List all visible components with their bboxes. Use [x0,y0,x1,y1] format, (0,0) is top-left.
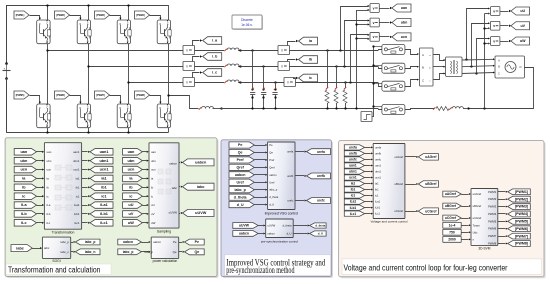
IGBT/Diode Q1 (upper leg 1) [37,20,51,44]
breaker B2 [382,63,405,73]
svg-text:uU: uU [151,203,155,207]
svg-text:Voltage and current control: Voltage and current control [371,219,408,223]
goto tag uan [392,4,411,12]
goto tag ubn1 [82,157,113,164]
svg-text:ubn: ubn [127,159,135,163]
goto tag d_theta [293,223,326,228]
from tag [PWM5] [14,91,29,99]
svg-text:uUVW: uUVW [195,211,207,215]
voltage measurement block uV [491,21,500,30]
svg-text:ic1: ic1 [375,194,379,198]
capacitor Cfa branch [250,49,255,109]
goto tag i_a [203,37,222,45]
wire: phase C from leg 3 [127,81,183,83]
panel 2 title: Improved VSG control strategy and pre-synchronization method [225,255,331,276]
svg-text:iLa1: iLa1 [74,203,80,207]
svg-text:uabcn: uabcn [269,173,277,177]
current measurement block ib (grid side) [278,62,290,71]
svg-text:ucn1: ucn1 [375,176,381,180]
from tag iLa (Transformation input) [14,202,36,209]
wire: phase A from leg 1 [46,49,183,51]
svg-text:ubn1: ubn1 [375,169,381,173]
breaker B1 [382,44,405,54]
from tag ic1 (VCC input) [344,193,373,198]
svg-text:1e-4: 1e-4 [449,223,456,227]
wire: to goto tag uW [500,40,511,42]
breaker B4 (neutral) [382,105,405,115]
svg-text:ubn1: ubn1 [99,159,108,163]
wire: phase jogs into breakers [379,50,382,87]
wire: gate PWM5 to IGBT Q5 [30,96,42,104]
svg-text:uan: uan [128,150,135,154]
wire: gate PWM2 to IGBT Q2 [70,16,82,20]
svg-text:iLb1: iLb1 [350,206,357,210]
from tag [PWM3] [95,11,110,19]
subsystem block pre-synchronization control [261,219,298,243]
goto tag ucn1 [82,166,113,173]
svg-text:Pref: Pref [269,158,274,162]
svg-text:Udc: Udc [473,230,478,234]
resistor Rloadc branch [343,81,347,109]
svg-text:d_U: d_U [269,203,274,207]
from tag uan (Sampling input) [123,149,149,156]
goto tag ia [299,37,318,45]
svg-text:i: i [187,80,188,84]
goto tag urefa [295,149,331,155]
svg-text:Uref: Uref [237,180,245,184]
svg-text:[PWM2]: [PWM2] [56,13,65,17]
from tag uabcn (presync input) [233,231,266,237]
svg-text:uW: uW [128,221,134,225]
wire: Q5 emitter to bottom rail [46,128,48,134]
svg-text:uAGref: uAGref [445,192,457,196]
subsystem block Improved VSG control [265,142,299,216]
svg-text:urefb: urefb [349,152,357,156]
svg-text:ic1: ic1 [351,194,356,198]
svg-text:ucn1: ucn1 [349,176,357,180]
from tag iabc_p (VSG input) [229,187,267,193]
svg-text:iLc1: iLc1 [74,221,80,225]
svg-text:iLb: iLb [47,212,51,216]
goto tag uU [511,7,530,15]
three-phase programmable grid source [495,56,524,78]
svg-text:iabc_p: iabc_p [60,240,69,244]
from tag ia (Transformation input) [14,175,36,182]
svg-text:Qe: Qe [238,151,243,155]
svg-text:i: i [187,48,188,52]
wire: top rail to Q1 collector [46,4,48,20]
wire: V-I measurement to transformer [433,55,445,80]
svg-text:PWM2: PWM2 [488,197,497,201]
svg-text:ucn: ucn [20,168,27,172]
svg-text:1e-06 s.: 1e-06 s. [241,23,253,27]
wire: gate PWM6 to IGBT Q6 [70,96,82,104]
wire: to goto tag uV [500,25,511,27]
subsystem block SOGI [42,237,70,263]
from tag ic (Sampling input) [123,193,149,200]
wire: breakers to V-I measurement [405,50,420,87]
goto tag [PWM4] [498,211,531,217]
from tag [PWM8] [135,91,150,99]
svg-text:uan1: uan1 [349,164,357,168]
goto tag ucn [392,33,411,41]
svg-text:[PWM4]: [PWM4] [136,13,145,17]
svg-text:uV: uV [129,212,134,216]
from tag d_U (VSG input) [229,202,267,208]
svg-text:[PWM3]: [PWM3] [96,13,105,17]
svg-text:Transformation and calculation: Transformation and calculation [8,266,100,275]
wire [37,177,45,179]
svg-text:[PWM8]: [PWM8] [136,93,145,97]
svg-text:Uref: Uref [269,180,274,184]
svg-text:uabcn: uabcn [169,161,177,165]
svg-text:uan: uan [47,150,52,154]
wire: riser phase C to voltage measurement [349,34,369,84]
wire: grid source neutral return [467,68,533,110]
from tag uAGref (3D-SVM input) [443,191,471,197]
svg-text:i_b: i_b [212,55,218,59]
goto tag uCGref [405,208,439,215]
svg-text:ic: ic [22,194,25,198]
svg-text:ia1: ia1 [101,177,106,181]
svg-text:[PWM8]: [PWM8] [515,242,528,246]
subsystem block 3D-SVM [471,189,498,251]
svg-text:iLb1: iLb1 [74,212,80,216]
svg-text:750: 750 [449,230,455,234]
svg-text:iabc_p: iabc_p [123,250,134,254]
voltage measurement block ucn [370,33,379,42]
wire: top rail to Q4 collector [168,5,170,20]
svg-text:uan1: uan1 [100,150,109,154]
resistor Rloadb branch [334,65,338,109]
goto tag iLb1 [82,211,113,218]
wire: to goto tag uan [379,7,392,9]
from tag [PWM6] [55,91,70,99]
constant block 2000 [443,237,471,243]
from tag ubn (Sampling input) [123,157,149,164]
wire: phase B to filter inductor [195,66,225,68]
resistor-inductor branch RLn (grid neutral) [405,107,469,111]
voltage measurement block uU [491,7,500,16]
svg-text:v: v [373,6,375,10]
goto tag i_b [203,53,222,61]
goto tag [PWM2] [498,196,531,202]
svg-text:ubn: ubn [151,159,156,163]
constant block 750 [443,229,471,235]
from tag Uref (VSG input) [229,179,267,185]
svg-text:iLb1: iLb1 [375,206,381,210]
svg-text:ic: ic [309,76,312,80]
annotation panel: Transformation and calculation [5,138,218,278]
goto tag urefc [295,198,331,204]
subsystem block power calculation [144,237,178,263]
svg-text:3D-SVM: 3D-SVM [478,246,490,250]
svg-text:ic: ic [129,194,132,198]
svg-text:ib: ib [151,185,154,189]
goto tag Qe [179,249,205,255]
wire: riser to voltage measurement uW [477,38,491,74]
from tag Pref (VSG input) [229,157,267,163]
svg-text:Pe: Pe [238,143,242,147]
wire: Q7 emitter to bottom rail [127,128,129,134]
svg-text:PWM3: PWM3 [488,205,497,209]
svg-text:i: i [288,80,289,84]
transformer block [446,57,462,76]
svg-text:d_U: d_U [318,232,323,236]
svg-text:iabc: iabc [172,186,178,190]
goto tag [PWM8] [498,241,531,247]
subsystem block Transformation [44,143,81,235]
goto tag [PWM3] [498,204,531,210]
svg-text:uAGref: uAGref [473,192,482,196]
goto tag ic1 [82,193,113,200]
wire [37,186,45,188]
wire: riser phase B to voltage measurement [343,19,369,67]
svg-text:iabc: iabc [16,246,24,250]
IGBT/Diode Q8 (lower leg 4) [157,104,171,128]
svg-text:ic1: ic1 [101,194,106,198]
wire: DC bus bottom rail [7,132,169,134]
from tag ubn (Transformation input) [14,157,36,164]
goto tag urefb [295,173,331,179]
wire: to goto tag i_a [193,39,203,45]
svg-text:uCGref: uCGref [473,216,482,220]
inductor Lfb (filter) [224,64,241,68]
svg-text:uCGref: uCGref [425,209,437,213]
svg-text:C: C [422,79,424,83]
svg-text:uabcn: uabcn [267,231,275,235]
wire: leg 3 midpoint vertical [128,44,130,104]
svg-text:ia1: ia1 [351,182,356,186]
wire: to goto tag ib [288,58,299,61]
svg-text:ia1: ia1 [375,182,379,186]
current measurement block ia (grid side) [278,46,290,55]
wire: to goto tag ubn [379,21,392,23]
svg-text:urefa: urefa [317,150,325,154]
svg-text:Pe: Pe [173,240,177,244]
svg-text:iLc: iLc [47,221,51,225]
svg-text:uabcn: uabcn [195,161,207,165]
goto tag uAGref [405,154,439,161]
goto tag ia1 [82,175,113,182]
wire: gate PWM3 to IGBT Q3 [110,16,122,20]
wire: transformer to grid source phase a [462,58,495,60]
svg-text:N: N [520,66,522,69]
svg-text:iLc1: iLc1 [350,212,357,216]
constant block 1e-4 [443,222,471,228]
wire: transformer to grid source phase c [462,72,495,75]
goto tag iabc_n [71,249,100,255]
svg-text:ucn: ucn [151,168,156,172]
svg-text:[PWM1]: [PWM1] [16,13,25,17]
svg-text:[PWM1]: [PWM1] [515,190,528,194]
svg-text:ib1: ib1 [375,188,379,192]
svg-text:Qe: Qe [194,250,199,254]
current measurement block ib (inverter side) [183,62,195,71]
goto tag iLc1 [82,220,113,227]
svg-text:Sampling: Sampling [157,230,171,234]
svg-text:ib1: ib1 [351,188,356,192]
svg-text:power calculation: power calculation [153,259,178,263]
IGBT/Diode Q4 (upper leg 4) [157,20,171,44]
svg-text:uabcn: uabcn [235,173,246,177]
svg-text:[PWM7]: [PWM7] [96,93,105,97]
svg-text:Qref: Qref [236,166,244,170]
svg-text:uan1: uan1 [375,163,381,167]
wire [37,168,45,170]
wire [37,204,45,206]
svg-text:iLa1: iLa1 [100,203,108,207]
from tag iabc_p (power calc input) [118,249,151,255]
svg-text:urefc: urefc [375,157,382,161]
svg-text:uUVW: uUVW [267,223,275,227]
svg-text:A: A [422,53,424,57]
svg-text:Pref: Pref [237,158,245,162]
svg-text:uAGref: uAGref [425,155,437,159]
svg-text:urefa: urefa [349,146,357,150]
svg-text:[PWM5]: [PWM5] [515,219,528,223]
from tag uCGref (3D-SVM input) [443,215,471,221]
from tag urefa (VCC input) [344,145,373,150]
wire: phase C to filter inductor [195,82,225,84]
svg-text:v: v [493,24,495,28]
svg-text:d_theta: d_theta [283,223,292,227]
wire: to goto tag ia [288,40,299,46]
wire: neutral from leg 4 [167,94,198,108]
goto tag uabcn [179,159,214,166]
svg-text:ubn: ubn [401,21,408,25]
svg-text:PWM7: PWM7 [488,234,497,238]
current measurement block ic (grid side) [284,78,296,87]
panel 3 title: Voltage and current control loop for four-leg converter [342,259,542,275]
svg-text:uUVW: uUVW [239,224,250,228]
wire: riser to voltage measurement uV [472,22,491,66]
svg-text:uBGref: uBGref [445,204,457,208]
svg-text:uan1: uan1 [73,150,80,154]
wire: top rail to Q3 collector [127,4,129,20]
wire: riser phase A to voltage measurement [339,5,369,52]
wire [37,222,45,224]
from tag uW (Sampling input) [123,220,149,227]
svg-text:PWM6: PWM6 [488,227,497,231]
wire: neutral rail [221,109,382,110]
from tag iLb1 (VCC input) [344,205,373,210]
svg-text:ucn: ucn [401,35,407,39]
svg-text:iLa: iLa [21,203,27,207]
svg-text:urefc: urefc [317,199,325,203]
wire [37,195,45,197]
svg-text:uU: uU [128,203,133,207]
svg-text:ia: ia [47,177,50,181]
svg-text:pre-synchronization control: pre-synchronization control [261,239,298,243]
wire [37,160,45,162]
svg-text:[PWM3]: [PWM3] [515,205,528,209]
from tag urefc (VCC input) [344,157,373,162]
goto tag ib [299,56,318,64]
from tag uBGref (3D-SVM input) [443,203,471,209]
svg-text:ia: ia [151,177,154,181]
svg-text:iLa1: iLa1 [350,200,357,204]
wire: gate PWM4 to IGBT Q4 [150,16,162,20]
IGBT/Diode Q3 (upper leg 3) [117,20,131,44]
wire: secondary voltage measurement minus bus [483,13,490,109]
svg-text:uabcn: uabcn [239,232,249,236]
svg-text:PWM8: PWM8 [488,242,497,246]
IGBT/Diode Q2 (upper leg 2) [77,20,91,44]
goto tag Pe [179,239,205,245]
svg-text:urefa: urefa [287,150,294,154]
svg-text:uV: uV [151,212,155,216]
svg-text:uan: uan [20,150,27,154]
svg-text:[PWM7]: [PWM7] [515,234,528,238]
svg-text:Voltage and current control lo: Voltage and current control loop for fou… [344,263,508,272]
svg-text:urefc: urefc [287,199,294,203]
from tag ucn1 (VCC input) [344,175,373,180]
wire: Q6 emitter to bottom rail [87,128,89,134]
wire: DC bus top rail [7,5,169,7]
svg-text:iLb: iLb [21,212,27,216]
voltage measurement block uan [370,4,379,13]
goto tag i_c [203,69,222,77]
svg-text:i_c: i_c [212,71,217,75]
goto tag [PWM1] [498,189,531,195]
svg-text:ib1: ib1 [101,185,107,189]
wire: leg 1 midpoint vertical [47,44,49,104]
from tag uabcn (VSG input) [229,172,267,178]
svg-text:ubn: ubn [20,159,28,163]
svg-text:[PWM5]: [PWM5] [16,93,25,97]
svg-text:[PWM6]: [PWM6] [515,227,528,231]
svg-text:iLc1: iLc1 [100,221,108,225]
svg-text:iabc_n: iabc_n [85,250,96,254]
annotation panel: Improved VSG control strategy [221,140,333,278]
from tag uan1 (VCC input) [344,163,373,168]
wire: phase B to breaker [241,66,379,68]
goto tag uUVW [179,210,214,217]
svg-text:v: v [373,35,375,39]
from tag [PWM4] [135,11,150,19]
from tag uabcn (power calc input) [118,239,151,245]
svg-text:uabcn: uabcn [123,240,133,244]
wire: phase C to breaker [241,82,379,84]
svg-text:pre-synchronization method: pre-synchronization method [226,265,294,276]
wire: to goto tag ucn [379,36,392,38]
inductor Lfa (filter) [224,48,241,52]
svg-text:C: C [498,73,500,76]
svg-text:i: i [282,48,283,52]
svg-text:[PWM2]: [PWM2] [515,197,528,201]
svg-text:uCGref: uCGref [445,216,457,220]
svg-text:ic1: ic1 [76,194,80,198]
svg-text:urefb: urefb [287,174,294,178]
svg-text:Transformation: Transformation [52,231,75,235]
svg-text:iabc_p: iabc_p [85,240,96,244]
goto tag [PWM5] [498,218,531,224]
wire: riser to voltage measurement uU [467,8,491,60]
capacitor Cfb branch [261,65,266,109]
svg-text:PWM5: PWM5 [488,219,497,223]
wire: phase A to breaker [241,50,379,52]
goto tag ubn [392,19,411,27]
svg-text:i: i [187,64,188,68]
svg-text:d_theta: d_theta [234,195,248,199]
svg-text:ib1: ib1 [76,185,80,189]
svg-text:d_theta: d_theta [269,195,278,199]
wire: leg 4 midpoint vertical [168,44,170,104]
wire: leg 2 midpoint vertical [88,44,90,104]
svg-text:SOGI: SOGI [52,259,60,263]
from tag ucn (Sampling input) [123,166,149,173]
